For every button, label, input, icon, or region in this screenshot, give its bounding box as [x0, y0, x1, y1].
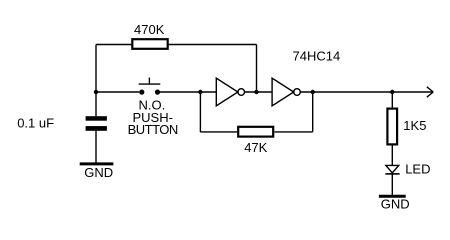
node E: LED branch junction [390, 90, 394, 94]
wire: node E down to R3 [391, 92, 393, 108]
wire: LED cathode to ground [391, 174, 393, 195]
arrow: output terminal [427, 87, 433, 97]
node C: junction between inverters [254, 90, 258, 94]
wire: node B down to feedback rail [199, 92, 201, 132]
wire: feedback vertical up to output node [312, 92, 314, 132]
ground: right GND symbol [379, 196, 410, 211]
node D: output junction [311, 90, 315, 94]
resistor R3 1K5 [387, 109, 397, 145]
node A: rail junction [94, 90, 98, 94]
resistor R1 470K [132, 39, 167, 49]
wire: R1 right end to feedback drop [169, 44, 257, 46]
svg-text:BUTTON: BUTTON [128, 122, 178, 137]
wire: left rail top corner to R1 [96, 44, 132, 46]
svg-text:470K: 470K [134, 22, 165, 37]
wire: vertical drop into node B [256, 45, 258, 93]
push-button S1 (N.O.) [139, 78, 161, 95]
wire: U1A output to U1B input [245, 91, 273, 93]
svg-text:GND: GND [84, 165, 113, 180]
wire: C1 bottom plate to ground [95, 131, 97, 163]
label: push-button N.O. PUSH-BUTTON [128, 98, 178, 138]
svg-text:LED: LED [405, 161, 430, 176]
svg-text:1K5: 1K5 [403, 118, 426, 133]
wire: feedback rail left segment to R2 [200, 131, 237, 133]
inverter U1A (74HC14 gate) [216, 78, 244, 106]
wire: U1B output to arrow [300, 91, 433, 93]
svg-text:0.1 uF: 0.1 uF [17, 116, 54, 131]
wire: R3 bottom to LED anode [391, 146, 393, 166]
wire: push-button right terminal to inverter U1A input [160, 91, 216, 93]
ground: left GND symbol [80, 164, 114, 180]
node B: U1A input junction [198, 90, 202, 94]
wire: node A to push-button left terminal [96, 91, 139, 93]
wire: left rail vertical [95, 45, 97, 117]
svg-text:47K: 47K [244, 140, 267, 155]
inverter U1B (74HC14 gate) [272, 78, 300, 106]
capacitor C1 [86, 116, 107, 131]
LED D1 [385, 165, 399, 174]
svg-text:GND: GND [381, 196, 410, 211]
svg-text:74HC14: 74HC14 [293, 49, 341, 64]
wire: feedback rail right segment from R2 [275, 131, 313, 133]
resistor R2 47K [238, 127, 273, 137]
